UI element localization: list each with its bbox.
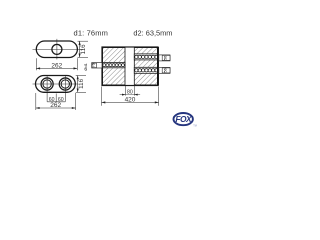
end view B centerline horizontal [33, 83, 79, 85]
outlet pipe left inner ring [43, 80, 51, 88]
inlet perforated tube in left chamber [103, 62, 125, 67]
end view A centerline vertical [56, 39, 58, 60]
svg-text:420: 420 [125, 96, 136, 103]
svg-text:262: 262 [51, 62, 62, 69]
dim 116 bottom dimension line [77, 76, 79, 93]
svg-text:TM: TM [193, 125, 197, 128]
svg-text:262: 262 [50, 102, 61, 109]
outlet perforated tube lower in right chamber [134, 67, 158, 73]
absorption chamber right hatched [134, 48, 157, 85]
absorption chamber left hatched [103, 48, 125, 85]
dim 116 top dimension line [79, 41, 81, 57]
dim 60/60 dimension line [47, 101, 65, 103]
dim 262 bottom dimension line [36, 107, 76, 109]
svg-text:116: 116 [78, 78, 85, 88]
dim 80 extension lines [124, 86, 126, 96]
svg-text:Ød1: Ød1 [83, 62, 88, 70]
outlet stub upper [159, 55, 170, 61]
dim 262 bottom extension lines [35, 93, 37, 110]
inlet stub left [92, 63, 102, 68]
end view B oval shell [36, 76, 76, 93]
dim 262 top extension lines [35, 58, 37, 70]
outlet pipe left outer ring [41, 78, 53, 90]
outlet pipe right inner ring [61, 80, 69, 88]
outlet stub upper label box [162, 55, 170, 60]
dim 60/60 bars [46, 97, 48, 102]
dim 420 extension lines [101, 87, 103, 106]
outlet stub lower label box [162, 68, 170, 73]
end view A oval shell [36, 41, 77, 58]
svg-text:d2: 63,5mm: d2: 63,5mm [133, 29, 172, 38]
FOX logo ellipse [174, 113, 193, 125]
dim 116 bottom extension lines [76, 75, 86, 77]
svg-text:56: 56 [164, 56, 168, 60]
end view B outlet centerline right [64, 75, 66, 97]
svg-text:FOX: FOX [175, 114, 192, 124]
body right end cap line [157, 47, 159, 86]
body shell outline [102, 47, 158, 86]
dim 80 dimension line [120, 94, 141, 96]
inlet pipe circle d1 [52, 44, 62, 54]
inlet stub label box [92, 63, 97, 68]
svg-text:80: 80 [127, 90, 133, 96]
svg-text:56: 56 [164, 68, 168, 72]
svg-text:76: 76 [92, 63, 96, 67]
outlet pipe right outer ring [59, 78, 71, 90]
dim 420 dimension line [102, 101, 159, 103]
outlet stub lower [159, 67, 170, 73]
svg-text:d1: 76mm: d1: 76mm [74, 29, 109, 38]
dim 80 text [126, 89, 133, 94]
outlet perforated tube upper in right chamber [134, 54, 158, 60]
svg-text:116: 116 [80, 44, 87, 54]
end view B outlet centerline left [46, 75, 48, 97]
dim 262 top dimension line [36, 67, 77, 69]
dim 116 top extension lines [78, 40, 89, 42]
end view A centerline horizontal [33, 48, 84, 50]
